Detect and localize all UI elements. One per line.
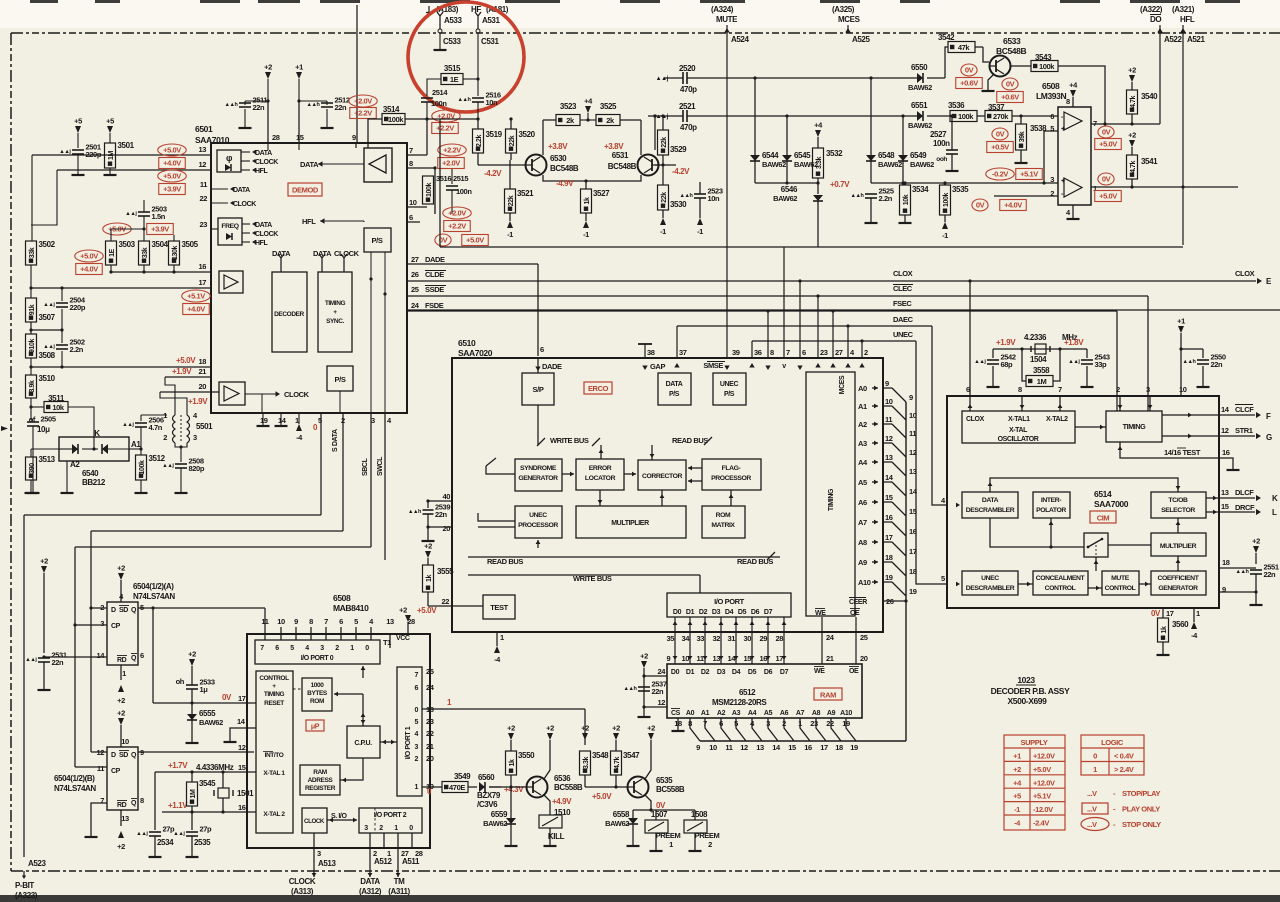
svg-text:PLAY ONLY: PLAY ONLY (1122, 805, 1160, 814)
svg-text:4.2336: 4.2336 (1024, 333, 1047, 342)
svg-text:9: 9 (696, 743, 700, 752)
svg-text:S/P: S/P (533, 385, 544, 394)
svg-text:4.7k: 4.7k (614, 756, 621, 769)
wire left rail x24 (23, 515, 25, 857)
resistor 3501 1M (105, 143, 116, 168)
svg-text:SWCL: SWCL (377, 456, 384, 476)
svg-text:+2: +2 (507, 724, 515, 733)
svg-text:D1: D1 (686, 609, 695, 616)
wire UNEC drop to pin5 (916, 341, 947, 584)
transistor 6535 BC558B (616, 786, 627, 788)
svg-text:-1: -1 (507, 230, 513, 239)
svg-text:23: 23 (820, 348, 828, 357)
svg-text:BAW62: BAW62 (794, 160, 818, 169)
svg-text:7: 7 (100, 796, 104, 805)
svg-text:D0: D0 (671, 669, 680, 676)
resistor 3521 22k (505, 189, 516, 213)
svg-text:+2: +2 (546, 724, 554, 733)
CS ground (677, 718, 679, 730)
resistor 3530 22k (658, 185, 669, 210)
svg-text:8: 8 (409, 159, 413, 168)
S/P block (522, 373, 554, 405)
svg-text:A1: A1 (131, 440, 141, 449)
svg-text:1: 1 (122, 669, 126, 678)
svg-text:MAB8410: MAB8410 (333, 603, 369, 613)
svg-text:I/O PORT 0: I/O PORT 0 (301, 655, 334, 662)
svg-text:16: 16 (238, 803, 246, 812)
svg-text:2520: 2520 (679, 64, 696, 73)
svg-text:24: 24 (826, 633, 835, 642)
svg-text:23: 23 (426, 717, 434, 726)
feedback line top (990, 478, 1178, 492)
svg-text:26: 26 (411, 270, 419, 279)
svg-text:+1.7V: +1.7V (168, 761, 188, 770)
svg-text:+2.0V: +2.0V (354, 97, 372, 106)
svg-text:15: 15 (296, 133, 304, 142)
svg-text:3: 3 (193, 433, 197, 442)
svg-text:PROCESSOR: PROCESSOR (518, 522, 558, 529)
svg-text:6501: 6501 (195, 124, 213, 134)
svg-text:+2.2V: +2.2V (448, 222, 466, 231)
svg-text:CLOX: CLOX (1235, 269, 1255, 278)
svg-text:P/S: P/S (724, 391, 735, 398)
resistor 3519 2.2k (473, 129, 484, 153)
svg-text:A2: A2 (717, 710, 726, 717)
svg-text:470p: 470p (680, 85, 697, 94)
svg-text:< 0.4V: < 0.4V (1114, 752, 1134, 761)
resistor 3513 390 (30, 449, 32, 457)
wire 3515 left to 2514 (427, 79, 441, 96)
svg-text:22n: 22n (1264, 570, 1277, 579)
svg-text:3515: 3515 (444, 64, 461, 73)
control timing reset block (256, 671, 293, 833)
svg-text:BAW62: BAW62 (910, 160, 934, 169)
svg-text:D7: D7 (780, 669, 789, 676)
svg-text:L: L (1272, 508, 1277, 517)
svg-text:6508: 6508 (333, 593, 351, 603)
svg-text:v: v (782, 363, 786, 370)
svg-text:11: 11 (697, 654, 704, 663)
svg-text:DATA: DATA (255, 150, 272, 157)
svg-text:(A325): (A325) (832, 5, 855, 14)
timing block saa7000 (1106, 411, 1162, 442)
red +5.0V oval pin13 (158, 144, 187, 156)
wire write bus riser (600, 445, 602, 459)
svg-text:CIM: CIM (1097, 514, 1110, 523)
svg-text:1000: 1000 (311, 682, 325, 689)
svg-text:A531: A531 (482, 16, 500, 25)
svg-text:DATA: DATA (233, 187, 250, 194)
svg-text:24: 24 (426, 683, 435, 692)
svg-text:16: 16 (198, 262, 206, 271)
svg-text:+4.0V: +4.0V (1004, 201, 1022, 210)
capacitor 2539 22n (427, 501, 429, 508)
svg-text:FSEC: FSEC (893, 299, 912, 308)
wire D5 bus (751, 617, 753, 664)
svg-text:14: 14 (96, 651, 105, 660)
svg-text:9: 9 (667, 654, 671, 663)
svg-text:6504(1/2)(B): 6504(1/2)(B) (54, 774, 95, 783)
svg-text:P-BIT: P-BIT (15, 881, 34, 890)
red +4.0V box pin13 (159, 158, 186, 169)
diodes 6548 6549 (870, 78, 872, 155)
svg-text:▲▲h: ▲▲h (1182, 359, 1196, 365)
svg-text:F: F (1266, 412, 1271, 421)
svg-text:TIMING: TIMING (828, 488, 835, 511)
wire pin13 rail y155 (32, 154, 211, 156)
svg-text:22: 22 (826, 719, 834, 728)
svg-text:6546: 6546 (781, 185, 798, 194)
svg-text:4.7n: 4.7n (149, 423, 163, 432)
svg-text:▲▲j: ▲▲j (122, 422, 134, 428)
svg-text:D4: D4 (732, 669, 741, 676)
svg-text:+2: +2 (264, 63, 272, 72)
svg-text:3549: 3549 (454, 772, 471, 781)
xtal1 riser (1021, 381, 1023, 396)
svg-text:BB212: BB212 (82, 478, 106, 487)
svg-text:D2: D2 (699, 609, 708, 616)
svg-text:1k: 1k (509, 759, 516, 766)
svg-text:6: 6 (540, 345, 544, 354)
svg-text:+1: +1 (1177, 317, 1185, 326)
svg-text:31: 31 (728, 634, 736, 643)
svg-text:N74LS74AN: N74LS74AN (133, 592, 175, 601)
wire FSEC drop (1116, 311, 1118, 411)
svg-text:MATRIX: MATRIX (711, 522, 735, 529)
svg-text:+5.0V: +5.0V (1099, 140, 1117, 149)
svg-text:+5.0V: +5.0V (80, 252, 98, 261)
op-amp triangle A (1064, 112, 1082, 130)
P/S block bottom (327, 366, 353, 391)
svg-text:23: 23 (810, 719, 818, 728)
svg-text:27: 27 (835, 348, 843, 357)
pin1 output wire (1091, 186, 1238, 188)
svg-text:+2: +2 (640, 652, 648, 661)
svg-text:1: 1 (669, 840, 673, 849)
svg-text:DEMOD: DEMOD (292, 186, 319, 195)
wire rail x57 down (31, 170, 57, 225)
svg-text:A6: A6 (858, 498, 867, 507)
wire pin18 rail y367 (30, 358, 32, 367)
svg-text:MCES: MCES (838, 15, 861, 24)
svg-text:SD: SD (119, 607, 128, 614)
svg-text:3507: 3507 (39, 313, 56, 322)
svg-text:BAW62: BAW62 (908, 121, 932, 130)
svg-text:24: 24 (411, 301, 420, 310)
svg-text:FREQ: FREQ (221, 223, 238, 230)
svg-text:A4: A4 (858, 458, 868, 467)
svg-text:DECODER P.B. ASSY: DECODER P.B. ASSY (991, 686, 1070, 696)
svg-text:BC558B: BC558B (656, 785, 685, 794)
svg-text:φ: φ (226, 153, 233, 163)
svg-text:3502: 3502 (39, 240, 56, 249)
svg-text:21: 21 (426, 742, 434, 751)
wire port1 pin1 y785 (422, 786, 442, 788)
wire RAM A7 drop (800, 718, 810, 741)
wire -4 below port1 (496, 632, 498, 646)
svg-text:10μ: 10μ (37, 425, 50, 434)
capacitor 2508 820p (175, 463, 187, 465)
svg-text:+2: +2 (1013, 765, 1021, 774)
i/o port 2 block (359, 808, 422, 833)
svg-text:+4.0V: +4.0V (187, 305, 205, 314)
wire 6531 collector to 2521 (654, 116, 656, 150)
svg-text:+3.9V: +3.9V (163, 185, 181, 194)
svg-text:20: 20 (426, 754, 434, 763)
svg-text:3: 3 (364, 825, 368, 832)
svg-text:(A323): (A323) (15, 891, 38, 900)
wire base 6536 (501, 786, 526, 788)
svg-text:2k: 2k (566, 116, 575, 125)
svg-text:100n: 100n (456, 187, 472, 196)
red 0V oval +5.0V pin7 (1098, 126, 1114, 138)
svg-text:3560: 3560 (1172, 620, 1189, 629)
svg-text:19: 19 (850, 743, 858, 752)
svg-text:1k: 1k (426, 575, 433, 582)
svg-text:7: 7 (260, 645, 264, 652)
svg-text:6536: 6536 (554, 774, 571, 783)
svg-text:33k: 33k (142, 247, 149, 258)
svg-text:16: 16 (760, 654, 768, 663)
svg-text:A8: A8 (858, 538, 867, 547)
wire rail y531 (91, 530, 343, 532)
svg-text:ADRESS: ADRESS (308, 777, 334, 784)
capacitor 2503 1.5n (138, 211, 150, 213)
crystal network (969, 349, 971, 396)
svg-text:12: 12 (238, 743, 246, 752)
svg-text:PREEM: PREEM (656, 831, 681, 840)
wire DAEC drop to pin4 (932, 326, 947, 505)
svg-text:6514: 6514 (1094, 489, 1112, 499)
red +5.1V oval +4.0V box pin17 (182, 290, 211, 302)
svg-text:(A311): (A311) (388, 887, 410, 896)
svg-text:5501: 5501 (196, 422, 213, 431)
svg-text:STR1: STR1 (1235, 426, 1253, 435)
svg-text:22n: 22n (52, 658, 65, 667)
svg-text:INT/TO: INT/TO (265, 752, 284, 759)
svg-text:+4.9V: +4.9V (552, 797, 572, 806)
DATA P/S block (658, 373, 691, 405)
wire A524 MUTE vertical (726, 25, 728, 358)
switch block (1084, 533, 1108, 557)
svg-text:3529: 3529 (670, 145, 687, 154)
top scan artifacts (30, 0, 58, 3)
transistor 6530 BC548B (526, 155, 547, 176)
wire D0 bus (674, 617, 676, 664)
svg-text:SSDE: SSDE (425, 285, 444, 294)
wire node y119 (477, 119, 479, 129)
svg-text:K: K (94, 429, 100, 438)
svg-text:9: 9 (1222, 585, 1226, 594)
phi demodulator block (217, 150, 241, 172)
svg-text:270k: 270k (993, 112, 1009, 121)
svg-text:CLOCK: CLOCK (255, 159, 278, 166)
svg-text:OE: OE (849, 668, 859, 675)
wire pin28 (267, 101, 269, 143)
logic legend table (1081, 735, 1144, 775)
svg-text:ERROR: ERROR (589, 465, 612, 472)
svg-text:12: 12 (885, 434, 893, 443)
svg-text:12: 12 (1221, 426, 1229, 435)
svg-text:10: 10 (709, 743, 717, 752)
capacitor 2551 22n (1250, 569, 1262, 571)
wire RAM A2 drop (721, 718, 731, 741)
emitter join wires (543, 175, 586, 181)
svg-text:MSM2128-20RS: MSM2128-20RS (712, 698, 767, 707)
svg-text:22: 22 (199, 194, 207, 203)
svg-text:1: 1 (1196, 609, 1200, 618)
svg-text:COEFFICIENT: COEFFICIENT (1158, 575, 1200, 582)
flag processor block (702, 459, 761, 490)
svg-text:6508: 6508 (1042, 81, 1060, 91)
svg-text:+1: +1 (295, 63, 303, 72)
svg-text:BAW62: BAW62 (605, 819, 629, 828)
svg-text:D2: D2 (701, 669, 710, 676)
svg-text:3512: 3512 (149, 454, 166, 463)
svg-text:+5.1V: +5.1V (1020, 170, 1038, 179)
svg-text:100k: 100k (958, 112, 974, 121)
svg-text:5: 5 (290, 645, 294, 652)
svg-text:3527: 3527 (593, 189, 610, 198)
svg-text:40: 40 (442, 492, 450, 501)
svg-text:ROM: ROM (310, 698, 324, 705)
svg-text:BZX79: BZX79 (477, 791, 501, 800)
svg-text:470p: 470p (680, 123, 697, 132)
svg-text:-0.2V: -0.2V (992, 170, 1008, 179)
svg-text:RAM: RAM (313, 769, 327, 776)
svg-text:OSCILLATOR: OSCILLATOR (998, 436, 1039, 443)
svg-text:28: 28 (272, 133, 280, 142)
svg-text:D4: D4 (725, 609, 734, 616)
svg-text:X500-X699: X500-X699 (1008, 696, 1048, 706)
wire rail y547 (75, 546, 371, 548)
red DEMOD box (288, 183, 322, 196)
P/S block top (364, 228, 391, 252)
wire CLEC drop (1147, 296, 1149, 411)
svg-text:5: 5 (415, 719, 419, 726)
svg-text:68p: 68p (1001, 360, 1014, 369)
resistor 3527 1k (581, 189, 592, 213)
svg-text:8: 8 (140, 796, 144, 805)
wire RAM A5 drop (768, 718, 778, 741)
svg-text:11: 11 (725, 743, 732, 752)
freq pins DATA CLOCK HFL (242, 223, 250, 225)
svg-text:+2: +2 (188, 650, 196, 659)
svg-text:CLOCK: CLOCK (284, 390, 310, 399)
6533 emitter ground (988, 74, 994, 90)
wire rail y515 right segment (321, 514, 620, 516)
wire D4 bus (735, 617, 737, 664)
svg-text:12: 12 (740, 743, 748, 752)
pin 37 riser (676, 326, 678, 358)
svg-text:+1.1V: +1.1V (168, 801, 188, 810)
svg-text:2: 2 (163, 433, 167, 442)
crystal 1501 symbol (218, 788, 229, 798)
svg-text:CLOCK: CLOCK (255, 231, 278, 238)
bottom scan edge (0, 895, 1280, 902)
pin 39 SMSE arrow (724, 366, 729, 371)
svg-text:2.2n: 2.2n (879, 194, 893, 203)
svg-text:6555: 6555 (199, 709, 216, 718)
svg-text:6512: 6512 (739, 688, 756, 697)
svg-text:0V: 0V (1006, 80, 1015, 89)
pin 8 riser (767, 311, 769, 358)
svg-text:100k: 100k (943, 193, 950, 207)
capacitor 2543 33p (1060, 348, 1087, 350)
svg-text:-1: -1 (1014, 805, 1020, 814)
svg-text:DATA: DATA (982, 497, 999, 504)
svg-text:100n: 100n (431, 99, 447, 108)
svg-text:▲▲j: ▲▲j (162, 463, 174, 469)
svg-text:3558: 3558 (1033, 366, 1050, 375)
i/o port block (667, 593, 791, 617)
wire RAM A8 drop (816, 718, 826, 741)
svg-text:A511: A511 (402, 857, 420, 866)
svg-text:CLOCK: CLOCK (304, 818, 325, 825)
svg-text:+2: +2 (647, 724, 655, 733)
op-amp U6514 SAA7000 outline (947, 396, 1219, 608)
pin7 output wire (1091, 123, 1160, 125)
svg-text:22: 22 (426, 729, 434, 738)
cpu arrows (362, 711, 364, 726)
svg-text:CONTROL: CONTROL (1105, 585, 1136, 592)
svg-text:D3: D3 (712, 609, 721, 616)
data descrambler block (962, 492, 1018, 518)
svg-text:2505: 2505 (41, 415, 56, 424)
svg-text:100k: 100k (388, 115, 404, 124)
svg-text:9: 9 (909, 393, 913, 402)
cpu to ram adress arrow (340, 758, 363, 780)
ffA pin1 supply (120, 665, 122, 680)
svg-text:2: 2 (415, 756, 419, 763)
resistor 3507 91k (30, 288, 32, 298)
svg-text:MCES: MCES (839, 375, 846, 394)
i/o port 1 block (397, 667, 422, 796)
svg-text:3521: 3521 (517, 189, 534, 198)
svg-text:9: 9 (352, 133, 356, 142)
svg-text:A533: A533 (444, 16, 462, 25)
unec descrambler block (962, 571, 1018, 595)
pin 1 wire short (383, 833, 385, 848)
interpolator bottom arrow (1050, 518, 1052, 547)
ffA Q out wire (138, 607, 153, 609)
svg-text:A4: A4 (748, 710, 757, 717)
wire x75 drop (74, 547, 76, 625)
svg-text:P/S: P/S (335, 375, 346, 384)
svg-text:+5.1V: +5.1V (187, 292, 205, 301)
svg-text:8: 8 (1066, 97, 1070, 106)
svg-text:2.2n: 2.2n (70, 345, 84, 354)
svg-text:13: 13 (713, 654, 721, 663)
i/o port 0 block (255, 640, 380, 664)
svg-text:STOP/PLAY: STOP/PLAY (1122, 789, 1160, 798)
capacitor 2525 2.2n (865, 193, 877, 195)
svg-text:6559: 6559 (491, 810, 508, 819)
resistor 3545 1M (187, 782, 198, 806)
svg-text:UNEC: UNEC (981, 575, 999, 582)
svg-text:0V: 0V (976, 201, 985, 210)
diode 6559 BAW62 (510, 787, 512, 810)
red +0.6V box 6533 (956, 78, 983, 89)
red RAM box (814, 688, 842, 700)
svg-text:2515: 2515 (453, 174, 468, 183)
svg-text:▲▲h: ▲▲h (306, 102, 320, 108)
svg-text:WE: WE (815, 610, 826, 617)
svg-text:+1: +1 (1013, 752, 1021, 761)
svg-text:+0.5V: +0.5V (991, 143, 1009, 152)
svg-text:D6: D6 (751, 609, 760, 616)
svg-text:PREEM: PREEM (695, 831, 720, 840)
